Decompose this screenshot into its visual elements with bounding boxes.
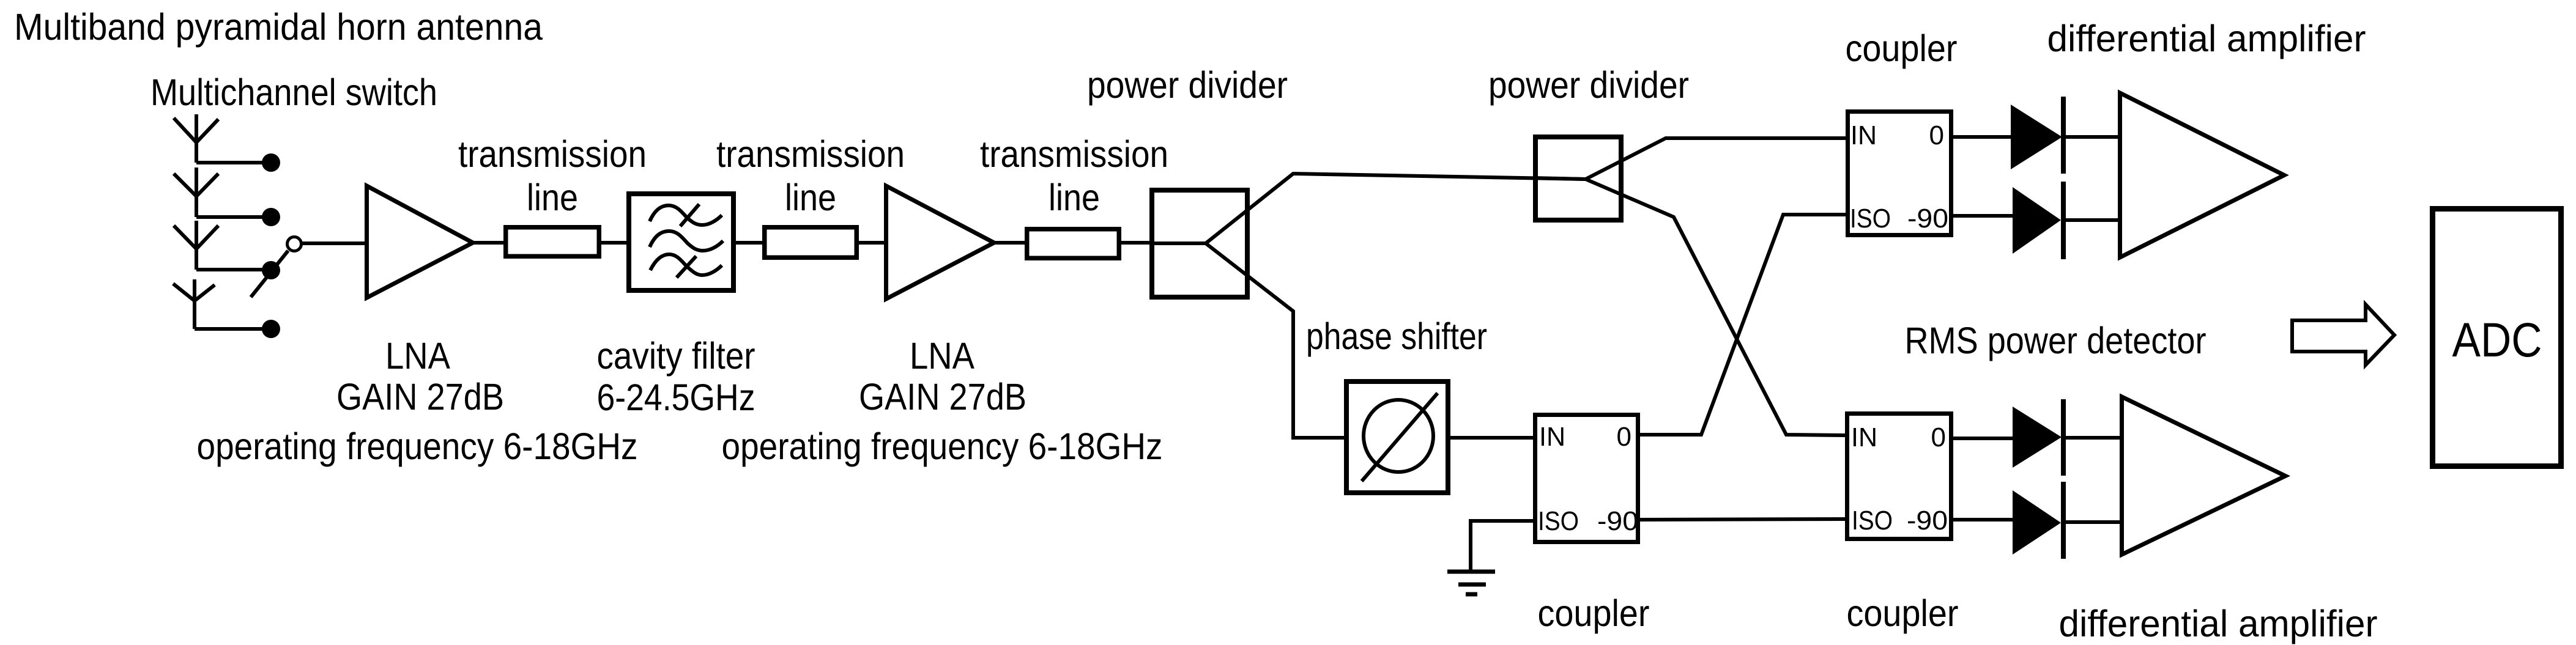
- diode D2: [2013, 187, 2061, 254]
- power divider PD2 input inside box: [1533, 178, 1586, 179]
- svg-text:6-24.5GHz: 6-24.5GHz: [597, 377, 755, 418]
- svg-text:GAIN 27dB: GAIN 27dB: [859, 376, 1026, 418]
- wire: coupler C2 0 output crossing up to coupler C1 ISO: [1640, 215, 1846, 435]
- wire: coupler C3 -90 to diode D4: [1953, 518, 2014, 522]
- wire: LNA2 to TL3: [995, 241, 1027, 245]
- power divider PD2 box: [1535, 137, 1621, 220]
- svg-text:phase shifter: phase shifter: [1306, 315, 1487, 357]
- diode D1: [2011, 105, 2062, 169]
- power divider PD1 lower branch wire: [1206, 243, 1344, 438]
- transmission line TL1: [506, 227, 599, 257]
- wire: phase shifter to coupler C2: [1450, 436, 1533, 440]
- block arrow to ADC: [2292, 304, 2394, 365]
- svg-text:power divider: power divider: [1488, 64, 1689, 106]
- wire: coupler C1 -90 to diode D2: [1953, 214, 2014, 218]
- svg-text:LNA: LNA: [385, 335, 450, 377]
- wire: TL3 to PD1: [1121, 241, 1149, 245]
- switch arm: [251, 251, 288, 297]
- svg-text:power divider: power divider: [1087, 64, 1288, 106]
- antenna A2 dot: [262, 208, 280, 226]
- svg-text:transmission: transmission: [980, 133, 1168, 175]
- svg-text:operating frequency 6-18GHz: operating frequency 6-18GHz: [197, 426, 638, 467]
- svg-text:Multiband pyramidal horn anten: Multiband pyramidal horn antenna: [14, 6, 543, 48]
- wire: switch to LNA1: [302, 241, 365, 245]
- cavity filter wave bottom: [650, 254, 722, 275]
- svg-text:LNA: LNA: [910, 335, 974, 377]
- ADC box: [2433, 209, 2561, 466]
- cavity filter wave top: [650, 205, 722, 225]
- switch pole circle: [288, 237, 302, 251]
- svg-text:ISO: ISO: [1852, 506, 1893, 536]
- wire: TL2 to LNA2: [859, 241, 884, 245]
- coupler C2 box: [1535, 415, 1638, 542]
- coupler C1 box: [1848, 112, 1951, 235]
- phase shifter circle: [1364, 400, 1433, 472]
- cavity filter F1 box: [629, 194, 733, 290]
- ground: [1447, 572, 1495, 594]
- svg-text:coupler: coupler: [1846, 28, 1958, 69]
- op-amp differential amplifier A2: [2122, 397, 2286, 555]
- svg-text:line: line: [527, 177, 578, 218]
- wire: TL1 to filter: [601, 241, 626, 245]
- svg-text:coupler: coupler: [1538, 592, 1650, 634]
- op-amp differential amplifier A1: [2120, 93, 2285, 257]
- diode D1 cathode bar: [2061, 97, 2066, 174]
- wire: LNA1 to TL1: [474, 241, 506, 245]
- svg-text:transmission: transmission: [716, 133, 905, 175]
- antenna A2: [174, 168, 271, 217]
- antenna A1: [174, 114, 271, 163]
- op-amp LNA U1: [367, 186, 473, 298]
- wire: coupler C3 0 to diode D3: [1953, 437, 2014, 440]
- diode D2 cathode bar: [2061, 182, 2066, 259]
- diode D3 cathode bar: [2061, 399, 2066, 476]
- wire: diode D3 to amp A2: [2066, 436, 2120, 440]
- coupler C3 box: [1847, 414, 1951, 539]
- cavity filter wave top slash: [680, 204, 699, 226]
- cavity filter wave bottom slash: [677, 256, 696, 278]
- transmission line TL2: [765, 227, 857, 258]
- diode D4: [2013, 490, 2061, 555]
- antenna A3: [174, 221, 271, 270]
- transmission line TL3: [1027, 229, 1119, 259]
- phase shifter slash: [1362, 393, 1438, 481]
- svg-text:differential amplifier: differential amplifier: [2047, 18, 2366, 59]
- svg-text:transmission: transmission: [458, 133, 647, 175]
- svg-text:IN: IN: [1850, 120, 1877, 150]
- power divider PD1 input stub: [1149, 241, 1206, 245]
- power divider PD1 box: [1152, 190, 1247, 297]
- svg-text:line: line: [785, 177, 836, 218]
- diode D4 cathode bar: [2061, 482, 2066, 559]
- wire: filter to TL2: [736, 241, 762, 245]
- svg-text:-90: -90: [1597, 506, 1638, 536]
- wire: diode D4 to amp A2: [2066, 520, 2121, 524]
- antenna A1 dot: [262, 153, 280, 172]
- wire: coupler C1 0 to diode D1: [1953, 135, 2013, 139]
- wire: diode D2 to amp A1: [2066, 218, 2120, 222]
- svg-text:GAIN 27dB: GAIN 27dB: [336, 376, 504, 418]
- svg-text:ISO: ISO: [1538, 506, 1579, 536]
- power divider PD2 lower branch wire to coupler C3 IN: [1586, 179, 1845, 435]
- svg-text:IN: IN: [1539, 422, 1565, 452]
- wire: diode D1 to amp A1: [2066, 135, 2118, 139]
- antenna A4 dot: [262, 320, 280, 338]
- svg-text:differential amplifier: differential amplifier: [2059, 603, 2378, 644]
- svg-text:0: 0: [1617, 422, 1631, 452]
- svg-text:0: 0: [1931, 422, 1946, 452]
- wire: coupler C2 -90 output to coupler C3 ISO: [1640, 519, 1845, 520]
- svg-text:Multichannel switch: Multichannel switch: [150, 72, 437, 113]
- power divider PD1 upper branch wire: [1206, 174, 1586, 243]
- antenna A4: [173, 279, 271, 329]
- svg-text:line: line: [1049, 177, 1100, 218]
- op-amp LNA U2: [886, 186, 995, 299]
- svg-text:ISO: ISO: [1850, 204, 1891, 234]
- svg-text:IN: IN: [1851, 422, 1877, 452]
- svg-text:-90: -90: [1907, 506, 1948, 536]
- svg-text:-90: -90: [1907, 204, 1948, 234]
- power divider PD2 upper branch wire to coupler C1 IN: [1586, 138, 1846, 179]
- svg-text:0: 0: [1929, 120, 1944, 150]
- wire: coupler C2 ISO to ground: [1471, 521, 1533, 570]
- phase shifter PS1 box: [1346, 381, 1448, 493]
- svg-text:cavity filter: cavity filter: [597, 335, 755, 377]
- cavity filter wave middle: [650, 231, 723, 251]
- diode D3: [2013, 407, 2062, 468]
- svg-text:coupler: coupler: [1847, 592, 1959, 634]
- svg-text:ADC: ADC: [2452, 312, 2542, 367]
- svg-text:RMS power detector: RMS power detector: [1905, 320, 2207, 361]
- svg-text:operating frequency 6-18GHz: operating frequency 6-18GHz: [722, 426, 1163, 467]
- antenna A3 dot: [262, 261, 280, 279]
